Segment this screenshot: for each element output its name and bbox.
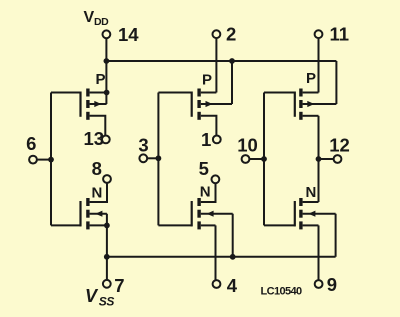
transistor Q3 source lead [303, 92, 319, 94]
transistor Q2 bulk arrow [206, 101, 213, 107]
svg-text:1: 1 [201, 129, 211, 150]
transistor Q1 drain lead [90, 116, 106, 136]
wire Q5 bulk wrap down to VSS rail [232, 214, 234, 257]
junction dot VSS rail at pin7 column [104, 254, 110, 260]
transistor Q4 source lead [90, 224, 107, 226]
transistor Q6 bulk arrow [308, 211, 315, 217]
transistor Q6 bulk lead [303, 213, 336, 215]
transistor Q4 gate bar [79, 201, 81, 226]
transistor Q1 source lead [90, 92, 107, 94]
transistor Q2 bulk lead [201, 103, 232, 105]
transistor Q4 bulk plate [86, 210, 89, 218]
node VDD label [84, 9, 110, 28]
transistor Q2 source plate [197, 89, 200, 97]
transistor Q2 drain plate [197, 112, 200, 120]
wire Q6 bulk wrap down to VSS rail [335, 214, 337, 257]
svg-text:SS: SS [99, 295, 115, 309]
svg-text:P: P [306, 70, 316, 87]
junction dot VSS rail at Q5 bulk wrap [230, 254, 236, 260]
svg-text:V: V [84, 9, 95, 26]
svg-text:7: 7 [114, 275, 124, 296]
svg-text:N: N [92, 185, 103, 202]
junction dot output to pin12 [316, 156, 322, 162]
pin 11 terminal [315, 30, 323, 38]
transistor Q3 drain lead [303, 115, 319, 117]
wire VDD rail drop to Q2 bulk [231, 61, 233, 104]
svg-text:LC10540: LC10540 [261, 286, 303, 298]
transistor Q3 drain plate [299, 112, 302, 120]
transistor Q1 bulk plate [86, 100, 89, 108]
junction dot VDD rail to Q2 bulk [229, 58, 235, 64]
transistor Q3 source plate [299, 89, 302, 97]
svg-text:6: 6 [26, 133, 36, 154]
wire VDD rail [106, 60, 336, 62]
transistor Q5 drain plate [197, 198, 200, 206]
svg-text:12: 12 [329, 135, 350, 156]
svg-text:5: 5 [199, 158, 209, 179]
transistor Q5 bulk plate [197, 210, 200, 218]
wire trunk1 to Q4 gate [51, 224, 81, 226]
pin 10 terminal [242, 155, 250, 163]
transistor Q6 drain lead [303, 201, 319, 203]
svg-text:8: 8 [92, 158, 102, 179]
transistor Q2 drain lead [201, 116, 217, 136]
transistor Q3 bulk lead [303, 103, 337, 105]
svg-text:3: 3 [138, 135, 148, 156]
transistor Q2 gate bar [191, 92, 193, 117]
svg-text:P: P [96, 71, 106, 88]
wire VSS rail [107, 256, 336, 258]
wire trunk1 to Q1 gate [51, 92, 81, 94]
transistor Q3 bulk arrow [307, 101, 314, 107]
transistor Q4 drain lead to pin8 [90, 183, 107, 202]
transistor Q4 source plate [86, 221, 89, 229]
pin 7 terminal [103, 280, 111, 288]
transistor Q5 bulk arrow [207, 211, 214, 217]
wire pin10 to gate trunk 3 [249, 158, 264, 160]
pin 13 terminal [102, 136, 110, 144]
svg-text:P: P [202, 72, 212, 89]
pin 14 terminal [103, 30, 111, 38]
svg-text:2: 2 [226, 24, 236, 45]
transistor Q4 bulk lead [90, 213, 107, 215]
transistor Q5 source lead [201, 224, 216, 226]
wire Q6 source down to pin9 [318, 225, 320, 280]
wire trunk2 to Q5 gate [158, 224, 192, 226]
wire gate trunk 2 [157, 93, 159, 226]
junction dot gate trunk 3 [261, 156, 267, 162]
transistor Q4 bulk arrow [95, 211, 102, 217]
transistor Q3 gate bar [294, 92, 296, 117]
transistor Q1 bulk arrow [94, 101, 101, 107]
pin 2 terminal [213, 30, 221, 38]
wire trunk2 to Q2 gate [158, 92, 192, 94]
wire trunk3 to Q3 gate [264, 92, 296, 94]
wire inverter output column [318, 116, 320, 202]
junction dot gate trunk 1 [48, 157, 54, 163]
wire Q4 bulk down to VSS [106, 214, 108, 280]
junction dot VDD rail at pin14 column [104, 58, 110, 64]
svg-text:11: 11 [330, 24, 350, 45]
transistor Q6 source lead [303, 224, 319, 226]
transistor Q5 gate bar [191, 201, 193, 226]
pin 8 terminal [103, 175, 111, 183]
transistor Q6 source plate [299, 221, 302, 229]
wire VDD rail right wrap to Q3 bulk [335, 61, 337, 104]
svg-text:14: 14 [118, 24, 139, 45]
junction dot Q1 source to VDD [104, 90, 110, 96]
svg-text:10: 10 [237, 135, 258, 156]
transistor Q5 source plate [197, 221, 200, 229]
pin 4 terminal [213, 280, 221, 288]
pin 3 terminal [139, 154, 147, 162]
transistor Q1 bulk lead [90, 103, 107, 105]
junction dot Q4 source [104, 223, 110, 229]
junction dot gate trunk 2 [156, 155, 162, 161]
transistor Q6 bulk plate [299, 210, 302, 218]
wire pin6 to gate trunk 1 [37, 159, 51, 161]
transistor Q3 bulk plate [299, 100, 302, 108]
transistor Q2 source lead [201, 92, 217, 94]
svg-text:DD: DD [94, 16, 109, 28]
svg-text:9: 9 [327, 274, 337, 295]
wire gate trunk 1 [50, 93, 52, 226]
transistor Q1 gate bar [79, 92, 81, 117]
transistor Q4 drain plate [86, 198, 89, 206]
wire output to pin12 [319, 158, 334, 160]
transistor Q2 bulk plate [197, 100, 200, 108]
wire pin3 to gate trunk 2 [147, 157, 158, 159]
transistor Q5 bulk lead [201, 213, 233, 215]
wire pin2 to Q2 source [215, 38, 217, 92]
transistor Q6 drain plate [299, 198, 302, 206]
wire Q5 source down to pin4 [215, 225, 217, 280]
wire trunk3 to Q6 gate [264, 224, 296, 226]
transistor Q1 source plate [86, 89, 89, 97]
svg-text:N: N [200, 184, 211, 201]
transistor Q1 drain plate [86, 112, 89, 120]
pin 1 terminal [213, 136, 221, 144]
svg-text:4: 4 [227, 275, 238, 296]
svg-text:N: N [306, 184, 317, 201]
transistor Q6 gate bar [294, 201, 296, 226]
pin 9 terminal [315, 280, 323, 288]
wire pin14 down to P1 bulk [105, 38, 107, 104]
transistor Q5 drain lead to pin5 [201, 183, 216, 202]
svg-text:13: 13 [84, 128, 105, 149]
pin 5 terminal [212, 175, 220, 183]
svg-text:V: V [85, 286, 99, 306]
pin 6 terminal [29, 156, 37, 164]
wire pin11 to Q3 source [318, 38, 320, 92]
wire gate trunk 3 [263, 93, 265, 226]
node VSS label [85, 286, 114, 309]
pin 12 terminal [334, 155, 342, 163]
